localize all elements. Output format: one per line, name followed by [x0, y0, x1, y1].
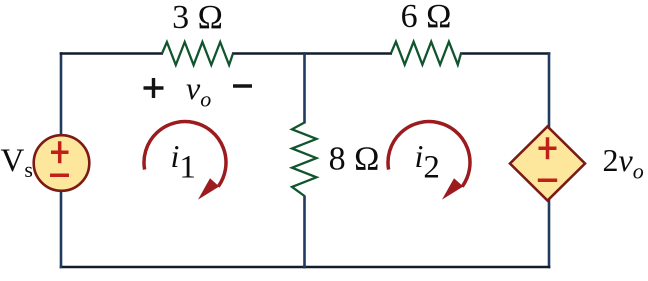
mesh current arrow i2 [388, 122, 470, 200]
annotation: minus sign of vo polarity [233, 84, 252, 88]
svg-text:8 Ω: 8 Ω [329, 141, 380, 178]
wire: bottom-right horizontal [303, 266, 550, 269]
resistor 8-ohm (middle branch) [292, 123, 317, 197]
wire: top-right horizontal (6-ohm to right corner) [460, 52, 550, 55]
wire: top-left horizontal (corner to 3-ohm) [60, 52, 163, 55]
wire: right vertical bottom segment [548, 200, 551, 269]
resistor 3-ohm (top left) [162, 42, 233, 65]
wire: top middle horizontal (3-ohm to node A) [232, 52, 306, 55]
minus sign inside Vs [50, 173, 69, 177]
voltage source Vs (independent, circle) [34, 135, 90, 191]
node A (top junction of middle branch) [303, 52, 392, 55]
mesh current arrow i1 [144, 122, 226, 200]
annotation: plus sign of vo polarity [144, 78, 164, 98]
resistor 6-ohm (top right) [391, 42, 461, 65]
minus sign inside dependent source [538, 178, 557, 182]
plus sign inside dependent source [539, 137, 557, 159]
svg-text:6 Ω: 6 Ω [401, 0, 452, 35]
node B (bottom junction of middle branch) [60, 266, 306, 269]
plus sign inside Vs [51, 141, 69, 163]
svg-text:3 Ω: 3 Ω [172, 0, 223, 36]
wire: middle vertical bottom segment [303, 196, 306, 269]
wire: left vertical top segment [60, 52, 63, 135]
wire: left vertical bottom segment [60, 191, 63, 268]
dependent source 2vo (diamond) [510, 127, 585, 201]
wire: right vertical top segment [548, 52, 551, 128]
wire: middle vertical top segment [303, 52, 306, 123]
